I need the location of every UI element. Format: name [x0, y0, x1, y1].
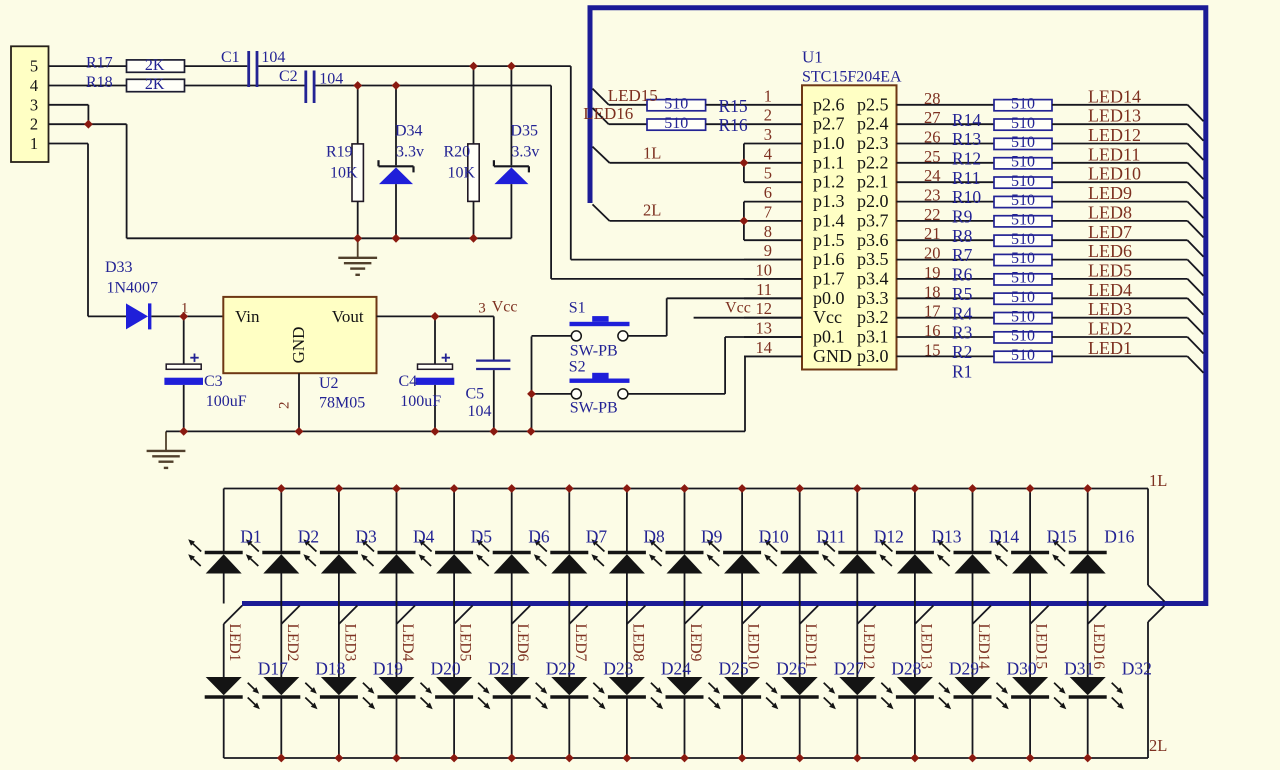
svg-text:LED9: LED9 — [1088, 183, 1132, 203]
svg-text:R10: R10 — [952, 187, 981, 207]
svg-text:R16: R16 — [719, 115, 748, 135]
svg-text:S1: S1 — [569, 299, 586, 316]
svg-text:14: 14 — [756, 338, 773, 357]
svg-text:510: 510 — [1011, 289, 1035, 306]
svg-text:13: 13 — [756, 319, 773, 338]
svg-text:D31: D31 — [1064, 658, 1094, 678]
svg-text:3.3v: 3.3v — [511, 144, 539, 161]
svg-text:510: 510 — [1011, 308, 1035, 325]
svg-text:D10: D10 — [759, 527, 789, 547]
svg-text:D3: D3 — [355, 527, 377, 547]
svg-text:LED9: LED9 — [687, 624, 704, 662]
svg-text:LED13: LED13 — [917, 624, 934, 670]
svg-text:D9: D9 — [701, 527, 723, 547]
svg-text:U2: U2 — [319, 375, 339, 392]
svg-text:19: 19 — [924, 263, 941, 282]
svg-text:p3.7: p3.7 — [857, 210, 889, 230]
svg-text:510: 510 — [1011, 134, 1035, 151]
svg-text:p3.6: p3.6 — [857, 230, 889, 250]
svg-text:510: 510 — [664, 95, 688, 112]
svg-text:16: 16 — [924, 321, 941, 340]
svg-text:LED10: LED10 — [1088, 164, 1141, 184]
svg-text:p2.1: p2.1 — [857, 172, 889, 192]
svg-text:10K: 10K — [330, 164, 358, 181]
svg-text:LED4: LED4 — [1088, 280, 1132, 300]
svg-text:LED14: LED14 — [1088, 86, 1141, 106]
svg-text:p2.6: p2.6 — [813, 94, 845, 114]
svg-text:D5: D5 — [471, 527, 493, 547]
svg-text:D16: D16 — [1104, 527, 1134, 547]
svg-text:LED8: LED8 — [629, 624, 646, 662]
svg-text:GND: GND — [813, 346, 852, 366]
svg-text:Vout: Vout — [332, 307, 364, 326]
svg-text:R14: R14 — [952, 110, 981, 130]
svg-text:4: 4 — [764, 144, 772, 163]
svg-text:100uF: 100uF — [400, 393, 441, 410]
svg-text:D30: D30 — [1007, 658, 1037, 678]
svg-text:p1.7: p1.7 — [813, 268, 845, 288]
svg-text:p1.5: p1.5 — [813, 230, 845, 250]
svg-text:D18: D18 — [315, 658, 345, 678]
svg-text:p0.0: p0.0 — [813, 288, 845, 308]
svg-text:D32: D32 — [1122, 658, 1152, 678]
svg-text:2L: 2L — [643, 201, 661, 220]
svg-text:D8: D8 — [643, 527, 665, 547]
svg-text:11: 11 — [756, 280, 772, 299]
svg-text:10: 10 — [756, 260, 773, 279]
svg-text:LED2: LED2 — [1088, 319, 1132, 339]
svg-text:6: 6 — [764, 183, 772, 202]
svg-text:18: 18 — [924, 282, 941, 301]
svg-text:D1: D1 — [240, 527, 261, 547]
svg-text:p2.3: p2.3 — [857, 133, 889, 153]
svg-text:510: 510 — [1011, 328, 1035, 345]
svg-text:D26: D26 — [776, 658, 806, 678]
svg-text:104: 104 — [261, 49, 285, 66]
svg-text:D20: D20 — [431, 658, 461, 678]
svg-text:D4: D4 — [413, 527, 435, 547]
svg-text:510: 510 — [1011, 173, 1035, 190]
svg-text:SW-PB: SW-PB — [570, 400, 618, 417]
svg-text:p1.2: p1.2 — [813, 172, 845, 192]
svg-text:78M05: 78M05 — [319, 395, 365, 412]
svg-text:23: 23 — [924, 186, 941, 205]
svg-text:Vcc: Vcc — [725, 300, 751, 317]
svg-text:R2: R2 — [952, 342, 972, 362]
svg-text:510: 510 — [1011, 270, 1035, 287]
svg-text:LED6: LED6 — [514, 624, 531, 662]
svg-text:R3: R3 — [952, 323, 973, 343]
svg-text:2K: 2K — [145, 57, 165, 74]
svg-text:LED11: LED11 — [802, 624, 819, 669]
svg-text:12: 12 — [756, 299, 773, 318]
svg-text:LED14: LED14 — [975, 624, 992, 670]
svg-text:D35: D35 — [510, 122, 538, 139]
svg-text:24: 24 — [924, 166, 941, 185]
svg-text:p1.1: p1.1 — [813, 152, 845, 172]
svg-text:510: 510 — [1011, 250, 1035, 267]
svg-text:510: 510 — [1011, 95, 1035, 112]
svg-text:2: 2 — [764, 106, 772, 125]
svg-text:D21: D21 — [488, 658, 518, 678]
svg-text:R12: R12 — [952, 149, 981, 169]
svg-text:100uF: 100uF — [206, 393, 247, 410]
svg-text:LED16: LED16 — [1090, 624, 1107, 670]
svg-text:R19: R19 — [326, 144, 353, 161]
svg-text:510: 510 — [1011, 115, 1035, 132]
svg-text:R4: R4 — [952, 303, 973, 323]
svg-text:p3.3: p3.3 — [857, 288, 889, 308]
svg-text:5: 5 — [764, 164, 772, 183]
svg-text:p3.5: p3.5 — [857, 249, 889, 269]
svg-text:10K: 10K — [448, 164, 476, 181]
svg-text:p3.0: p3.0 — [857, 346, 889, 366]
svg-text:21: 21 — [924, 224, 941, 243]
svg-text:D13: D13 — [931, 527, 961, 547]
svg-text:510: 510 — [1011, 153, 1035, 170]
svg-text:1: 1 — [181, 300, 189, 316]
svg-text:LED3: LED3 — [341, 624, 358, 662]
svg-text:15: 15 — [924, 340, 941, 359]
svg-text:D17: D17 — [258, 658, 288, 678]
svg-text:1N4007: 1N4007 — [107, 279, 159, 296]
svg-text:C5: C5 — [466, 386, 485, 403]
svg-text:LED10: LED10 — [745, 624, 762, 670]
svg-text:2L: 2L — [1149, 736, 1167, 755]
svg-text:R18: R18 — [86, 74, 113, 91]
svg-text:R8: R8 — [952, 226, 973, 246]
svg-text:Vcc: Vcc — [492, 299, 518, 316]
svg-text:28: 28 — [924, 89, 941, 108]
svg-text:D7: D7 — [586, 527, 608, 547]
svg-text:3: 3 — [30, 95, 38, 114]
svg-text:D29: D29 — [949, 658, 979, 678]
svg-text:LED3: LED3 — [1088, 299, 1132, 319]
svg-text:R5: R5 — [952, 284, 973, 304]
svg-text:p3.2: p3.2 — [857, 307, 889, 327]
svg-text:1: 1 — [764, 86, 772, 105]
svg-text:p1.4: p1.4 — [813, 210, 845, 230]
svg-text:LED7: LED7 — [1088, 222, 1132, 242]
svg-text:R20: R20 — [444, 144, 471, 161]
svg-text:D6: D6 — [528, 527, 550, 547]
svg-text:C3: C3 — [204, 373, 223, 390]
svg-text:26: 26 — [924, 128, 941, 147]
svg-text:LED11: LED11 — [1088, 144, 1140, 164]
svg-text:8: 8 — [764, 222, 772, 241]
svg-text:D15: D15 — [1047, 527, 1077, 547]
svg-text:2: 2 — [30, 115, 38, 134]
svg-text:7: 7 — [764, 202, 772, 221]
svg-text:LED7: LED7 — [572, 624, 589, 662]
svg-text:2: 2 — [276, 402, 292, 410]
svg-text:510: 510 — [1011, 231, 1035, 248]
svg-text:25: 25 — [924, 147, 941, 166]
svg-text:D27: D27 — [834, 658, 864, 678]
svg-text:LED5: LED5 — [1088, 260, 1132, 280]
svg-text:p0.1: p0.1 — [813, 327, 845, 347]
svg-text:4: 4 — [30, 76, 38, 95]
svg-text:LED1: LED1 — [226, 624, 243, 662]
svg-text:1L: 1L — [1149, 471, 1167, 490]
svg-text:U1: U1 — [802, 47, 823, 66]
svg-text:5: 5 — [30, 57, 38, 76]
svg-text:LED4: LED4 — [399, 624, 416, 662]
svg-text:LED12: LED12 — [1088, 125, 1141, 145]
svg-text:C1: C1 — [221, 49, 240, 66]
svg-text:C2: C2 — [279, 68, 298, 85]
svg-text:SW-PB: SW-PB — [570, 342, 618, 359]
svg-text:p1.3: p1.3 — [813, 191, 845, 211]
svg-text:D12: D12 — [874, 527, 904, 547]
svg-text:Vcc: Vcc — [813, 307, 842, 327]
svg-text:p3.1: p3.1 — [857, 327, 889, 347]
svg-text:9: 9 — [764, 241, 772, 260]
svg-text:D25: D25 — [719, 658, 749, 678]
svg-text:D19: D19 — [373, 658, 403, 678]
svg-text:LED15: LED15 — [608, 86, 658, 105]
svg-text:D33: D33 — [105, 259, 133, 276]
svg-text:27: 27 — [924, 108, 941, 127]
svg-text:510: 510 — [1011, 347, 1035, 364]
svg-text:D34: D34 — [395, 122, 423, 139]
svg-text:104: 104 — [468, 403, 492, 420]
svg-text:LED13: LED13 — [1088, 106, 1141, 126]
svg-text:1L: 1L — [643, 143, 661, 162]
svg-text:104: 104 — [319, 70, 343, 87]
svg-text:S2: S2 — [569, 358, 586, 375]
svg-text:LED5: LED5 — [457, 624, 474, 662]
svg-text:LED6: LED6 — [1088, 241, 1132, 261]
svg-text:D23: D23 — [603, 658, 633, 678]
svg-text:D2: D2 — [298, 527, 319, 547]
svg-text:3: 3 — [478, 300, 486, 316]
svg-text:1: 1 — [30, 134, 38, 153]
svg-text:R13: R13 — [952, 129, 981, 149]
svg-text:p1.6: p1.6 — [813, 249, 845, 269]
svg-text:p3.4: p3.4 — [857, 268, 889, 288]
svg-text:STC15F204EA: STC15F204EA — [802, 69, 902, 86]
svg-text:LED16: LED16 — [583, 104, 633, 123]
svg-text:p2.2: p2.2 — [857, 152, 889, 172]
svg-text:20: 20 — [924, 244, 941, 263]
svg-text:510: 510 — [1011, 192, 1035, 209]
svg-text:3.3v: 3.3v — [396, 144, 424, 161]
svg-text:D11: D11 — [816, 527, 846, 547]
svg-text:C4: C4 — [399, 373, 418, 390]
svg-text:R11: R11 — [952, 168, 981, 188]
svg-text:R7: R7 — [952, 245, 973, 265]
svg-text:D14: D14 — [989, 527, 1019, 547]
svg-text:510: 510 — [1011, 212, 1035, 229]
svg-text:D22: D22 — [546, 658, 576, 678]
svg-text:LED12: LED12 — [860, 624, 877, 670]
svg-text:R1: R1 — [952, 361, 972, 381]
svg-text:17: 17 — [924, 302, 941, 321]
svg-text:510: 510 — [664, 115, 688, 132]
svg-text:LED2: LED2 — [284, 624, 301, 662]
svg-text:22: 22 — [924, 205, 941, 224]
svg-text:R15: R15 — [719, 96, 748, 116]
svg-text:R6: R6 — [952, 265, 973, 285]
svg-text:R9: R9 — [952, 207, 973, 227]
svg-text:2K: 2K — [145, 76, 165, 93]
svg-text:Vin: Vin — [235, 307, 260, 326]
svg-text:3: 3 — [764, 125, 772, 144]
svg-text:R17: R17 — [86, 55, 113, 72]
svg-text:p2.7: p2.7 — [813, 114, 845, 134]
svg-text:p1.0: p1.0 — [813, 133, 845, 153]
svg-text:LED8: LED8 — [1088, 202, 1132, 222]
svg-text:GND: GND — [289, 327, 308, 364]
svg-text:p2.4: p2.4 — [857, 114, 889, 134]
svg-text:p2.0: p2.0 — [857, 191, 889, 211]
svg-text:LED1: LED1 — [1088, 338, 1132, 358]
svg-text:D24: D24 — [661, 658, 691, 678]
svg-text:D28: D28 — [891, 658, 921, 678]
svg-text:p2.5: p2.5 — [857, 94, 889, 114]
svg-text:LED15: LED15 — [1033, 624, 1050, 670]
